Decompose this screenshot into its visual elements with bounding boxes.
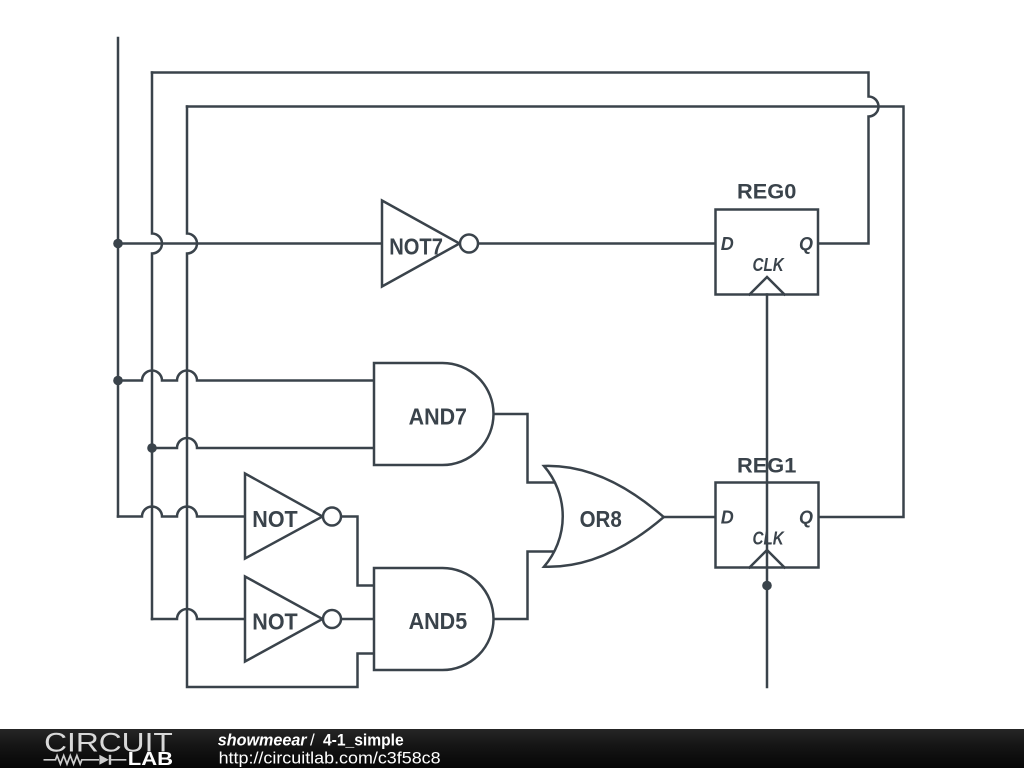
- wire: AND5 output to OR8 lower input: [494, 552, 557, 620]
- svg-text:AND7: AND7: [409, 404, 467, 430]
- inverter NOT7: [382, 201, 478, 287]
- svg-text:NOT7: NOT7: [389, 233, 443, 259]
- wire: AND7 input 2 y=448 with hop over x=187: [152, 438, 374, 448]
- svg-text:CLK: CLK: [753, 255, 786, 275]
- AND gate AND7: [374, 363, 494, 465]
- junction dot node at (118,380.5): [113, 376, 123, 386]
- svg-text:REG1: REG1: [737, 454, 797, 477]
- wire: OR8 output to REG1 D: [664, 516, 716, 519]
- svg-text:REG0: REG0: [737, 181, 796, 204]
- svg-text:Q: Q: [799, 508, 813, 528]
- wire: REG0 feedback top run y=72.5 with hop over y=106.5 wire, down to REG0 Q: [152, 73, 879, 244]
- wire: NOT1 input y=516.5 with hops over x=152 and x=187: [118, 507, 245, 517]
- svg-text:LAB: LAB: [128, 749, 173, 768]
- wire: NOT7 input y=243.5: [118, 242, 382, 245]
- svg-text:showmeear: showmeear: [218, 731, 308, 750]
- AND gate AND5: [374, 568, 494, 670]
- wire: NOT1 output jog down to AND5 upper input: [341, 517, 374, 586]
- REG0 clock edge triangle: [750, 277, 785, 295]
- inverter NOT (lower): [245, 577, 341, 662]
- wire: NOT2 input run y=619 with hop over x=187 bus: [152, 609, 245, 619]
- wire: AND7 input 1 y=380.5 with hops over x=152 and x=187: [118, 371, 374, 381]
- svg-text:4-1_simple: 4-1_simple: [323, 731, 404, 750]
- svg-text:Q: Q: [799, 234, 813, 254]
- wire: vertical bus x=187 with hop over NOT7 input wire, to AND5 lower input: [187, 107, 374, 688]
- wire: AND7 output to OR8 upper input: [494, 414, 557, 483]
- wire: clock net from REG0 CLK through REG1 down to dangling end: [766, 295, 769, 688]
- CircuitLab logo resistor and diode symbol: [44, 756, 127, 765]
- OR gate OR8: [544, 466, 664, 567]
- junction dot node at (767,585.5): [762, 581, 772, 591]
- wire: NOT7 output to REG0 D: [478, 242, 716, 245]
- svg-text:NOT: NOT: [252, 506, 297, 532]
- D flip-flop REG1 box: [716, 483, 819, 568]
- junction dot node at (118,243.5): [113, 239, 123, 249]
- junction dot node at (152,448): [147, 443, 157, 453]
- wire: net A vertical bus x=118 from top to NOT input row: [117, 38, 120, 517]
- svg-text:/: /: [310, 731, 315, 750]
- wire: REG1 feedback top run y=106.5 down right side to REG1 Q: [187, 107, 904, 518]
- svg-text:D: D: [721, 234, 734, 254]
- D flip-flop REG0 box: [716, 210, 819, 295]
- wire: NOT2 output to AND5 left edge: [341, 618, 374, 621]
- svg-text:http://circuitlab.com/c3f58c8: http://circuitlab.com/c3f58c8: [219, 748, 441, 767]
- svg-text:CLK: CLK: [753, 529, 786, 549]
- REG1 clock edge triangle: [750, 550, 785, 568]
- svg-text:OR8: OR8: [580, 506, 622, 532]
- svg-text:NOT: NOT: [252, 608, 297, 634]
- svg-text:D: D: [721, 508, 734, 528]
- wire: vertical bus x=152 with hop over NOT7 input wire: [152, 73, 162, 620]
- svg-text:AND5: AND5: [409, 608, 468, 634]
- inverter NOT (upper): [245, 474, 341, 559]
